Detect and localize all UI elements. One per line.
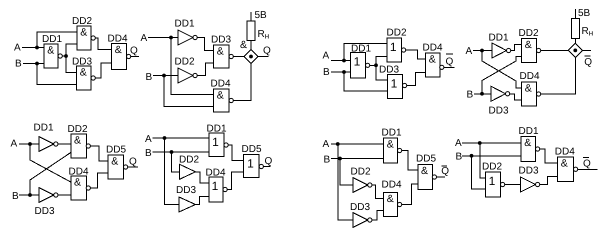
circuit 2: open-collector NANDs with wired-AND and load resistor	[141, 10, 272, 112]
svg-text:5В: 5В	[255, 10, 268, 21]
NAND gate DD4	[384, 193, 398, 217]
wire DD1 out to DD2 pin 1	[58, 143, 71, 145]
junction on A line	[478, 141, 482, 145]
wire Q output	[263, 166, 270, 168]
buffer DD2	[180, 164, 196, 179]
svg-text:Q: Q	[265, 156, 273, 167]
inversion bubble DD1	[536, 147, 540, 151]
svg-text:B: B	[456, 152, 463, 163]
svg-text:DD1: DD1	[519, 126, 539, 137]
wire DD4 out to DD5 pin 2	[227, 172, 244, 190]
wire B input	[23, 63, 44, 65]
wire DD1 out to DD2 pin 2	[66, 44, 77, 56]
wire DD2 out to DD4 pin 1	[372, 185, 383, 199]
wire DD4 out to wired-AND node	[233, 64, 251, 101]
wire B cross to DD2 pin 2	[30, 153, 71, 196]
svg-text:5В: 5В	[578, 8, 591, 19]
wire DD3 out to DD4 pin 2	[510, 94, 522, 100]
svg-text:DD2: DD2	[175, 57, 195, 68]
svg-text:DD1: DD1	[42, 34, 62, 45]
wire 5V supply	[250, 12, 252, 21]
svg-text:DD4: DD4	[555, 147, 575, 158]
wire Q-bar output	[582, 49, 591, 51]
wire A input	[153, 137, 210, 139]
wire Q output	[128, 166, 138, 168]
wire DD3 out to DD4 pin 2	[196, 197, 210, 205]
NAND gate DD3	[77, 66, 92, 90]
junction on B line	[480, 92, 484, 96]
svg-text:DD3: DD3	[519, 166, 539, 177]
svg-text:&: &	[240, 39, 247, 51]
svg-text:&: &	[421, 165, 428, 177]
svg-text:&: &	[217, 46, 224, 58]
svg-text:DD3: DD3	[35, 206, 55, 217]
wired-AND node (montage AND)	[568, 43, 582, 57]
wire DD1 out to DD3 pin 1	[376, 65, 388, 80]
inversion bubble DD2	[91, 36, 95, 40]
wire resistor to node	[250, 41, 252, 50]
wire A input	[19, 143, 39, 145]
wire Q output	[131, 56, 139, 58]
overbar of Q	[442, 165, 447, 167]
wire B to DD2 input	[172, 152, 180, 172]
circuit 7: XNOR from NAND gates and inverters	[323, 128, 450, 228]
wire B cross to DD2 pin 2	[482, 57, 522, 94]
svg-text:&: &	[429, 54, 436, 66]
svg-text:B: B	[467, 90, 474, 101]
wire DD4 out to wired-AND node	[541, 57, 576, 94]
svg-text:&: &	[524, 137, 531, 149]
resistor RH	[247, 21, 255, 41]
NOR gate DD2	[387, 38, 402, 62]
svg-text:&: &	[80, 27, 87, 39]
NOR gate DD1	[209, 133, 224, 157]
wire A to DD3 input	[338, 144, 353, 220]
inversion bubble DD5	[124, 165, 128, 169]
svg-text:A: A	[323, 51, 330, 62]
wire Q output	[258, 56, 268, 58]
inverter DD3	[353, 213, 372, 228]
circuit 4: inverters and NANDs with wired-AND output	[466, 8, 594, 117]
junction DD1 output	[374, 63, 378, 67]
wire DD1 out to DD3 pin 1	[197, 38, 213, 51]
resistor RH	[571, 18, 579, 38]
junction on B line	[35, 62, 39, 66]
wire DD2 out to DD4 pin 1	[196, 172, 210, 183]
junction on A line	[169, 36, 173, 40]
svg-text:A: A	[455, 138, 462, 149]
inversion bubble DD3	[229, 54, 233, 58]
wire A input	[331, 143, 384, 145]
svg-text:&: &	[387, 139, 394, 151]
svg-text:A: A	[145, 134, 152, 145]
svg-text:DD2: DD2	[387, 28, 407, 39]
svg-text:DD2: DD2	[482, 162, 502, 173]
inversion bubble DD2	[501, 182, 505, 186]
svg-text:B: B	[324, 155, 331, 166]
wire B to DD2 input	[340, 159, 353, 186]
wire DD2 out to DD3 input	[505, 184, 521, 186]
inversion bubble DD2	[537, 48, 541, 52]
svg-text:1: 1	[212, 135, 219, 149]
wire A input	[331, 60, 351, 62]
inverter DD1	[178, 30, 197, 45]
wire DD3 out to DD4 pin 2	[540, 177, 558, 185]
wire B input	[462, 155, 521, 157]
svg-text:1: 1	[489, 174, 496, 188]
inversion bubble DD4	[127, 54, 131, 58]
overbar of Q	[583, 156, 589, 158]
NAND gate DD5	[418, 165, 433, 190]
wire B input	[474, 93, 491, 95]
NOR gate DD3	[388, 75, 403, 99]
svg-text:DD4: DD4	[108, 34, 128, 45]
junction on A line	[163, 136, 167, 140]
circuit 1: XOR built from four NAND gates	[14, 16, 139, 90]
inversion bubble DD4	[223, 187, 227, 191]
wire A to DD2 pin 1	[344, 44, 387, 61]
NAND gate DD4	[214, 89, 230, 112]
svg-text:DD2: DD2	[72, 16, 92, 27]
wire A cross to DD4 pin 1	[30, 144, 71, 182]
wire DD1 out to DD5 pin 1	[228, 145, 244, 161]
overbar of Q	[584, 55, 590, 57]
inversion bubble DD3	[91, 76, 95, 80]
inverter DD3	[521, 177, 540, 192]
svg-text:DD3: DD3	[176, 185, 196, 196]
wire DD3 out to DD4 pin 2	[95, 63, 111, 78]
svg-text:DD5: DD5	[106, 145, 126, 156]
inverter DD1	[492, 43, 511, 58]
wire B to DD4 pin 2	[164, 76, 214, 107]
circuit 5: XOR with inverters and NAND gates	[11, 123, 139, 218]
wire A input	[148, 37, 178, 39]
svg-text:&: &	[525, 39, 532, 51]
wire DD3 out to DD4 pin 2	[407, 73, 426, 86]
svg-text:A: A	[11, 139, 18, 150]
svg-text:Q: Q	[129, 157, 137, 168]
inverter DD3	[491, 86, 510, 101]
NOR gate DD5	[244, 155, 260, 178]
NAND gate DD4	[71, 176, 87, 200]
wire B to DD3 pin 2	[37, 64, 77, 85]
NOR gate DD4	[209, 177, 223, 202]
wire B input	[153, 151, 210, 153]
svg-text:&: &	[115, 44, 122, 56]
svg-text:DD1: DD1	[34, 123, 54, 134]
NOR gate DD2	[486, 172, 501, 197]
wire B to DD2 pin 2	[472, 156, 486, 189]
circuit 8: XNOR from NAND, NOR and inverter	[455, 126, 598, 197]
inverter DD3	[39, 188, 58, 203]
svg-text:Q: Q	[130, 46, 138, 57]
svg-text:&: &	[47, 45, 54, 57]
svg-text:DD4: DD4	[423, 43, 443, 54]
wire A input	[462, 142, 521, 144]
svg-text:&: &	[111, 156, 118, 168]
NAND gate DD1	[44, 44, 58, 68]
junction on B line	[338, 157, 342, 161]
svg-text:&: &	[387, 193, 394, 205]
wire DD2 out to DD4 pin 1	[406, 50, 426, 59]
NAND gate DD4	[522, 82, 537, 106]
svg-text:1: 1	[212, 179, 219, 193]
wire DD1 out to DD5 pin 1	[402, 151, 418, 171]
svg-text:DD2: DD2	[179, 155, 199, 166]
svg-text:Q: Q	[583, 159, 591, 170]
wire 5V supply	[574, 9, 576, 18]
NAND gate DD4	[112, 44, 127, 70]
wire B to DD3 pin 2	[344, 72, 388, 91]
svg-text:DD5: DD5	[242, 144, 262, 155]
NAND gate DD2	[77, 26, 91, 50]
inversion bubble DD4	[229, 98, 233, 102]
svg-text:Q: Q	[441, 166, 449, 177]
wire B input	[153, 75, 178, 77]
svg-text:A: A	[14, 43, 21, 54]
junction on A line	[342, 59, 346, 63]
NAND gate DD5	[108, 155, 124, 179]
wire DD1 out to DD2 pin 1	[511, 45, 522, 51]
junction on B line	[342, 70, 346, 74]
inversion bubble DD4	[398, 202, 402, 206]
wire resistor to node	[574, 39, 576, 44]
wire DD1 out to DD4 pin 1	[540, 149, 558, 163]
wire DD1 output	[370, 64, 376, 66]
inversion bubble DD1	[366, 63, 370, 67]
wired-AND node (montage AND)	[244, 49, 258, 63]
junction on B line	[470, 154, 474, 158]
wire DD3 out to DD4 pin 2	[58, 194, 71, 196]
svg-text:B: B	[12, 191, 19, 202]
wire DD1 output	[62, 55, 66, 57]
svg-text:A: A	[141, 33, 148, 44]
inversion bubble DD5	[259, 164, 263, 168]
junction on A line	[480, 49, 484, 53]
NAND gate DD3	[214, 45, 230, 68]
svg-text:DD2: DD2	[519, 28, 539, 39]
svg-text:B: B	[323, 67, 330, 78]
wire DD4 out to DD5 pin 2	[402, 184, 418, 205]
svg-text:Q: Q	[584, 57, 592, 68]
wire DD1 out to DD3 pin 1	[66, 56, 77, 73]
svg-text:A: A	[323, 139, 330, 150]
svg-text:Q: Q	[263, 46, 271, 57]
svg-text:DD2: DD2	[68, 124, 88, 135]
svg-text:&: &	[217, 90, 224, 102]
svg-text:1: 1	[391, 77, 398, 91]
junction on B line	[28, 193, 32, 197]
inversion bubble DD4	[574, 167, 578, 171]
NAND gate DD4	[426, 53, 441, 77]
junction on B line	[170, 150, 174, 154]
inversion bubble DD1	[224, 143, 228, 147]
wire A to DD3 input	[165, 138, 180, 205]
wire DD2 out to DD5 pin 1	[90, 146, 108, 161]
wire A input	[473, 50, 492, 52]
NOR gate DD1	[351, 53, 366, 79]
inversion bubble DD5	[432, 175, 436, 179]
svg-text:&: &	[74, 177, 81, 189]
wire DD3 out to wired-AND node	[233, 56, 244, 58]
inversion bubble DD2	[402, 48, 406, 52]
svg-text:DD5: DD5	[416, 154, 436, 165]
buffer DD3	[179, 197, 196, 212]
wire B input	[331, 158, 384, 160]
svg-text:DD4: DD4	[211, 79, 231, 90]
wire DD4 out to DD5 pin 2	[90, 173, 108, 188]
inversion bubble DD4	[440, 65, 444, 69]
svg-text:DD3: DD3	[379, 65, 399, 76]
svg-text:DD3: DD3	[489, 106, 509, 117]
wire B input	[19, 194, 39, 196]
wire Q-bar output	[578, 168, 598, 170]
svg-text:DD2: DD2	[351, 167, 371, 178]
svg-text:1: 1	[354, 55, 361, 69]
wire Q-bar output	[444, 66, 455, 68]
inversion bubble DD1	[398, 148, 402, 152]
svg-text:DD1: DD1	[382, 128, 402, 139]
svg-text:DD3: DD3	[211, 35, 231, 46]
inversion bubble DD3	[403, 83, 407, 87]
junction on A line	[28, 142, 32, 146]
junction on B line	[162, 74, 166, 78]
junction DD1 output	[64, 54, 68, 58]
svg-text:1: 1	[247, 157, 254, 171]
NAND gate DD1	[384, 138, 398, 163]
svg-text:A: A	[466, 46, 473, 57]
wire DD2 out to DD3 pin 2	[197, 63, 213, 76]
inverter DD2	[353, 178, 372, 193]
svg-text:&: &	[80, 67, 87, 79]
wire A to DD2 pin 1	[37, 32, 77, 48]
NAND gate DD1	[521, 137, 536, 162]
wire DD3 out to DD4 pin 2	[372, 211, 384, 221]
svg-text:&: &	[525, 83, 532, 95]
svg-text:DD1: DD1	[175, 19, 195, 30]
NAND gate DD2	[522, 39, 537, 63]
wire A cross to DD4 pin 1	[482, 51, 522, 89]
inversion bubble DD1	[58, 54, 62, 58]
svg-text:1: 1	[390, 40, 397, 54]
inversion bubble DD4	[86, 186, 90, 190]
inverter DD2	[178, 68, 197, 83]
circuit 3: XOR built from OR-NOR gates	[323, 28, 455, 99]
NAND gate DD4	[558, 157, 574, 182]
svg-text:B: B	[145, 148, 152, 159]
wire A to DD4 pin 1	[171, 38, 214, 95]
wire DD1 out to DD2 pin 2	[376, 57, 387, 66]
wire B input	[331, 71, 351, 73]
svg-text:B: B	[15, 59, 22, 70]
inverter DD1	[39, 137, 58, 152]
svg-text:&: &	[74, 135, 81, 147]
svg-text:Q: Q	[446, 57, 454, 68]
inversion bubble DD4	[537, 92, 541, 96]
inversion bubble DD2	[86, 144, 90, 148]
wire A to DD2 pin 1	[480, 143, 486, 178]
circuit 6: XOR built from NOR gates and inverters	[145, 124, 273, 213]
junction on A line	[35, 46, 39, 50]
overbar of Q	[446, 53, 453, 55]
wire DD2 out to wired-AND node	[541, 50, 569, 52]
svg-text:&: &	[561, 158, 568, 170]
junction on A line	[336, 142, 340, 146]
svg-text:Rн: Rн	[582, 26, 594, 38]
wire DD2 out to DD4 pin 1	[95, 38, 111, 50]
svg-text:Rн: Rн	[258, 29, 270, 41]
wire Q-bar output	[437, 176, 446, 178]
svg-text:DD1: DD1	[489, 33, 509, 44]
NAND gate DD2	[71, 134, 87, 158]
svg-text:DD3: DD3	[350, 202, 370, 213]
svg-text:B: B	[146, 72, 153, 83]
svg-text:DD4: DD4	[520, 71, 540, 82]
wire A input	[22, 47, 44, 49]
svg-text:DD4: DD4	[382, 180, 402, 191]
